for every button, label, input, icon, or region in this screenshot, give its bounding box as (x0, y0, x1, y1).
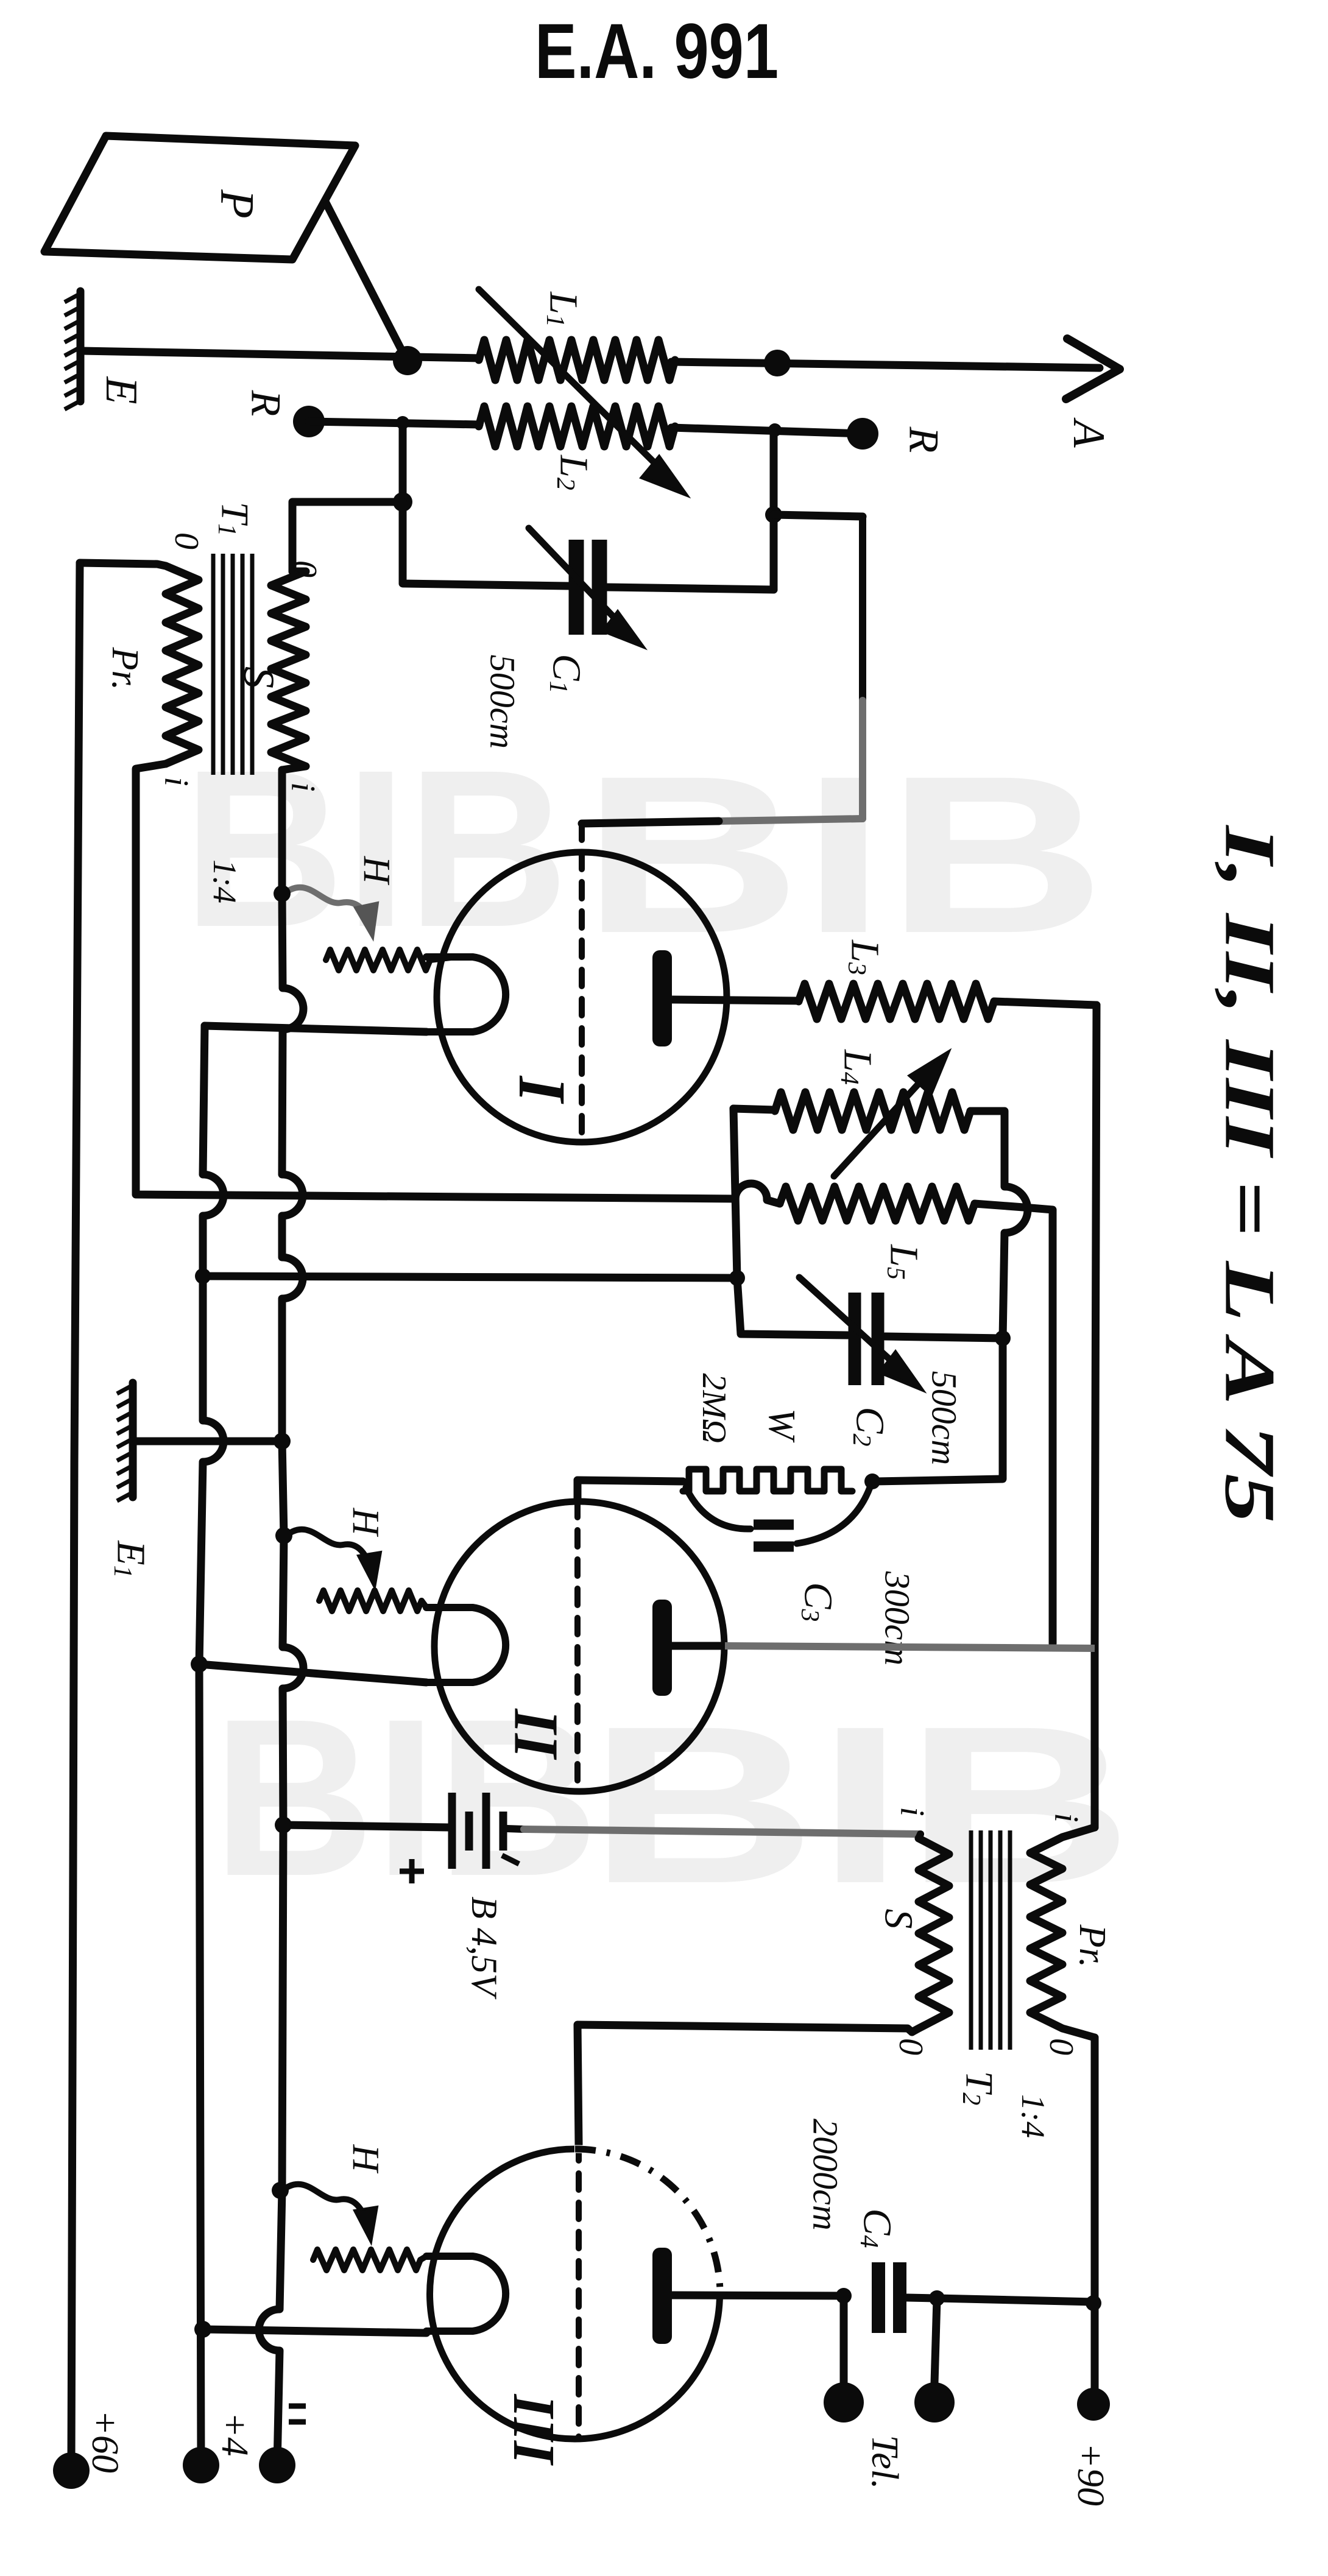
transformer T1 primary (80, 563, 199, 764)
svg-text:2000cm: 2000cm (806, 2119, 846, 2231)
tube III envelope (430, 2149, 720, 2439)
svg-text:E: E (96, 376, 146, 404)
wire filament III return (203, 2329, 426, 2333)
label R left (242, 390, 289, 417)
label 0 T1 pr (168, 532, 205, 549)
wire C1-right riser (770, 430, 778, 590)
wire L5 right (975, 1204, 1053, 1643)
svg-text:II: II (501, 1708, 571, 1760)
svg-text:i: i (1047, 1813, 1085, 1823)
label +4 (214, 2412, 255, 2457)
svg-text:III: III (501, 2394, 567, 2466)
transformer T2 core (971, 1830, 1010, 2050)
wire grid horizontal (582, 819, 863, 824)
label W (761, 1408, 802, 1443)
label Pr T2 (1072, 1924, 1113, 1968)
wire L4 right (970, 1111, 1028, 1338)
node L4 leg bottom (729, 1270, 745, 1286)
label plus battery (400, 1859, 424, 1883)
inductor L3 (799, 984, 994, 1019)
label i T2 pr (1047, 1813, 1085, 1823)
svg-text:I, II, III = L A 75: I, II, III = L A 75 (1210, 824, 1290, 1523)
wire C2 to W node (875, 1338, 1003, 1481)
ground E1 (117, 1383, 133, 1501)
label minus (289, 2406, 306, 2422)
resistor H2 (319, 1590, 426, 1611)
svg-text:B 4,5V: B 4,5V (464, 1896, 504, 2000)
label +60 (84, 2410, 125, 2473)
arrowhead A (1066, 339, 1120, 399)
wire C2 left jog (737, 1278, 847, 1335)
wire bus to C2 (203, 1276, 737, 1278)
svg-text:i: i (284, 782, 322, 792)
label L2 (551, 454, 596, 490)
svg-text:500cm: 500cm (925, 1371, 964, 1466)
label L1 (541, 291, 586, 327)
tube III plate (652, 2248, 844, 2344)
label i T2 sec (893, 1807, 931, 1816)
wire C1 right (607, 587, 774, 590)
label tube III (501, 2394, 567, 2466)
node E1 junction (274, 1433, 291, 1450)
svg-text:1:4: 1:4 (207, 859, 243, 903)
wire +90 bus (1091, 2038, 1099, 2388)
wire L3 to bus (994, 1001, 1097, 1005)
label C2 (847, 1406, 892, 1446)
wire junction to T1 S (292, 502, 403, 571)
label +90 (1070, 2443, 1111, 2506)
label 2MOhm (695, 1373, 733, 1443)
svg-text:+4: +4 (214, 2412, 255, 2457)
label 0 T1 sec (286, 560, 323, 577)
label H2 (345, 1508, 386, 1537)
label Pr T1 (104, 647, 146, 691)
capacitor C1 plates (576, 540, 599, 635)
node fil III v1 (194, 2321, 211, 2338)
label C1 (544, 654, 589, 693)
node H1 tap (274, 885, 291, 902)
node H2 tap (275, 1527, 292, 1544)
terminal R left (293, 406, 325, 437)
label minus battery (502, 1855, 519, 1864)
wire minus bus V2 (259, 770, 303, 2465)
wire grid II (577, 1480, 683, 1784)
wire H3 curl (280, 2184, 377, 2242)
antenna plate P (44, 136, 355, 259)
tube II filament (426, 1607, 506, 1682)
label E1 (108, 1540, 154, 1578)
tube II envelope (434, 1501, 724, 1791)
label tube II (501, 1708, 571, 1760)
node H3 tap (272, 2182, 289, 2199)
wire grid I dashed (579, 824, 585, 1138)
svg-text:+90: +90 (1070, 2443, 1111, 2506)
label 1:4 T1 (207, 859, 243, 903)
wire grid III dashed (576, 2144, 582, 2438)
watermark BIB (183, 723, 1133, 1930)
wire H1 curl (282, 887, 378, 938)
wire anode bus (1095, 1005, 1097, 1827)
svg-text:0: 0 (168, 532, 205, 549)
inductor L5 (780, 1187, 975, 1221)
wire junction right (774, 515, 863, 517)
label 2000cm (806, 2119, 846, 2231)
label B 4,5V (464, 1896, 504, 2000)
label 1:4 T2 (1015, 2094, 1051, 2138)
label S T1 (235, 666, 283, 688)
tube I plate (652, 950, 799, 1046)
wire R line (309, 422, 863, 434)
svg-text:Tel.: Tel. (864, 2435, 905, 2489)
wire Pr1-bottom to L5 (136, 764, 780, 1204)
inductor L1 (479, 340, 675, 380)
label H1 (356, 856, 397, 886)
label L4 (835, 1049, 880, 1085)
inductor L4 (733, 1092, 970, 1130)
node antenna-L1 right (764, 350, 791, 376)
label R right (900, 426, 947, 453)
svg-text:A: A (1064, 417, 1114, 448)
label H3 (345, 2144, 386, 2174)
label S T2 (877, 1909, 921, 1929)
node plate III left (836, 2288, 852, 2304)
wire antenna line (82, 351, 1100, 368)
label P (211, 189, 264, 219)
battery B (452, 1793, 503, 1869)
svg-text:2MΩ: 2MΩ (695, 1373, 733, 1443)
wire junction to C1 (403, 502, 569, 586)
resistor H3 (313, 2250, 426, 2270)
label i T1 sec (284, 782, 322, 792)
node R-line right drop (768, 423, 782, 437)
terminal minus (259, 2447, 295, 2483)
svg-text:E.A. 991: E.A. 991 (535, 8, 779, 95)
node T1-S top junction (393, 492, 412, 512)
tube I filament (426, 957, 506, 1032)
ground E (65, 291, 80, 409)
capacitor C3 (754, 1525, 794, 1547)
arrow variable L4 (834, 1053, 948, 1176)
svg-text:300cm: 300cm (878, 1571, 917, 1666)
label C3 (796, 1582, 841, 1621)
node junction R drop (396, 416, 409, 429)
transformer T1 core (213, 554, 252, 775)
label C4 (855, 2208, 900, 2248)
label 500cm C1 (483, 655, 523, 749)
wire plate-to-antenna (325, 202, 406, 359)
label L3 (842, 939, 888, 975)
node C2 right (995, 1330, 1011, 1346)
svg-text:P: P (211, 189, 264, 219)
terminal +60 (53, 2452, 90, 2489)
wire battery right (507, 1829, 920, 1838)
tube II plate (652, 1600, 1095, 1696)
svg-text:i: i (893, 1807, 931, 1816)
label 500cm C2 (925, 1371, 964, 1466)
svg-text:+60: +60 (84, 2410, 125, 2473)
wire R-junction down (399, 423, 407, 502)
label i T1 pr (157, 777, 195, 786)
capacitor C4 plates (878, 2262, 900, 2333)
wire +60 bus (71, 563, 80, 2467)
wire T2S to grid III (577, 2025, 912, 2144)
wire filament II return (199, 1664, 426, 1682)
transformer T2 primary (1030, 1827, 1095, 2038)
label tube I (505, 1075, 579, 1104)
wire C3 arc left (686, 1487, 751, 1529)
wire E1 (133, 1438, 277, 1445)
node antenna junction (393, 346, 422, 375)
wire Tel stub left (840, 2296, 848, 2383)
tube I envelope (437, 852, 727, 1142)
wire +4 bus V1 (199, 1026, 224, 2465)
svg-text:H: H (345, 2144, 386, 2174)
label 300cm (878, 1571, 917, 1666)
transformer T2 secondary (912, 1838, 949, 2032)
wire battery left (283, 1825, 448, 1827)
title E.A. 991 (535, 8, 779, 95)
inductor L2 (479, 406, 675, 446)
svg-text:W: W (761, 1408, 802, 1443)
terminal Tel right (914, 2382, 955, 2422)
wire C4 right (907, 2298, 1093, 2302)
arrow variable C1 (529, 528, 643, 647)
wire filament I return (205, 1026, 426, 1032)
wire grid riser (859, 517, 866, 819)
resistor H1 (326, 950, 451, 970)
svg-text:H: H (356, 856, 397, 886)
arrow variable L1 L2 (479, 289, 686, 495)
terminal Tel left (824, 2382, 864, 2422)
wire H2 curl (284, 1530, 381, 1587)
transformer T1 secondary (271, 571, 306, 770)
label Tel (864, 2435, 905, 2489)
svg-text:1:4: 1:4 (1015, 2094, 1051, 2138)
svg-text:S: S (235, 666, 283, 688)
node fil II v1 (191, 1656, 208, 1673)
terminal +4 (183, 2447, 219, 2483)
node bus bottom (1086, 2295, 1101, 2311)
svg-text:0: 0 (892, 2038, 930, 2055)
tube III filament (426, 2256, 506, 2331)
label L5 (881, 1244, 927, 1280)
resistor W meander (683, 1469, 852, 1491)
label E (96, 376, 146, 404)
svg-text:H: H (345, 1508, 386, 1537)
node line B left (195, 1268, 211, 1284)
wire L4 left leg (733, 1109, 737, 1278)
capacitor C2 plates (855, 1293, 878, 1385)
svg-text:0: 0 (1042, 2038, 1080, 2055)
wire Tel stub right (934, 2299, 937, 2383)
svg-text:R: R (242, 390, 289, 417)
label A (1064, 417, 1114, 448)
label T2 (957, 2071, 1001, 2106)
svg-text:I: I (505, 1075, 579, 1104)
node W right (864, 1473, 880, 1489)
node battery left (275, 1816, 292, 1833)
svg-text:S: S (877, 1909, 921, 1929)
node C4 right (929, 2290, 945, 2306)
wire C2 right (885, 1336, 1003, 1338)
node C1 right junction (765, 506, 782, 523)
label 0 T2 sec (892, 2038, 930, 2055)
svg-text:R: R (900, 426, 947, 453)
label tube type (1210, 824, 1290, 1523)
arrow variable C2 (799, 1277, 922, 1389)
terminal R right (847, 418, 878, 450)
label 0 T2 pr (1042, 2038, 1080, 2055)
wire C3 arc right (797, 1487, 870, 1544)
svg-text:i: i (157, 777, 195, 786)
label T1 (213, 502, 257, 537)
terminal +90 (1077, 2388, 1110, 2421)
svg-text:0: 0 (286, 560, 323, 577)
svg-text:Pr.: Pr. (104, 647, 146, 691)
svg-text:500cm: 500cm (483, 655, 523, 749)
svg-text:Pr.: Pr. (1072, 1924, 1113, 1968)
